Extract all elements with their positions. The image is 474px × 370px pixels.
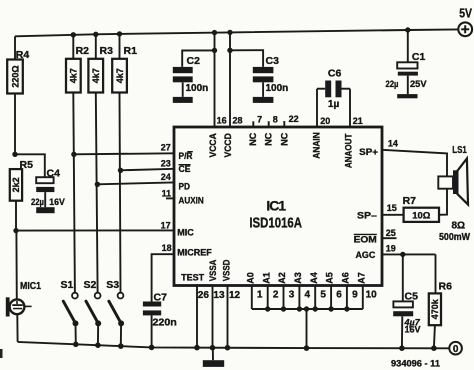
svg-text:5V: 5V (459, 6, 472, 21)
svg-text:16: 16 (217, 116, 227, 126)
node S2-rail (95, 342, 101, 348)
switch S3 (106, 279, 124, 346)
pin CE label (179, 164, 191, 175)
svg-text:MIC: MIC (177, 228, 194, 239)
node C5-rail (399, 345, 405, 351)
svg-text:VCCD: VCCD (223, 133, 233, 158)
node bus-A4 (313, 306, 318, 311)
svg-text:28: 28 (233, 116, 243, 126)
svg-text:22: 22 (289, 114, 299, 124)
svg-text:4k7: 4k7 (69, 68, 79, 83)
svg-text:4k7: 4k7 (115, 68, 125, 83)
wire pin 28 VCCD (229, 32, 231, 127)
wire A3 pin4 (298, 286, 300, 310)
svg-text:13: 13 (213, 290, 225, 301)
switch S2 (84, 279, 102, 345)
svg-text:SP–: SP– (357, 211, 377, 222)
node pin12-rail (225, 345, 231, 351)
wire C1 drop (407, 30, 409, 62)
svg-text:R2: R2 (76, 45, 90, 57)
svg-text:A0: A0 (245, 272, 255, 284)
svg-text:22µ: 22µ (31, 197, 44, 208)
resistor R3 (88, 34, 113, 92)
svg-text:16V: 16V (49, 197, 65, 208)
svg-text:S1: S1 (61, 279, 74, 291)
resistor R6 (429, 281, 452, 349)
svg-text:10: 10 (366, 289, 378, 300)
svg-text:14: 14 (388, 139, 398, 149)
svg-text:23: 23 (161, 159, 171, 169)
svg-text:5: 5 (320, 289, 326, 300)
svg-text:10Ω: 10Ω (412, 210, 431, 221)
capacitor C2 (173, 55, 208, 97)
wire pin 25 EOM stub (382, 237, 397, 239)
node R6-rail (431, 345, 437, 351)
node bus-A3 (297, 306, 302, 311)
svg-text:934096 - 11: 934096 - 11 (391, 358, 440, 368)
svg-text:220n: 220n (153, 317, 177, 328)
svg-text:AUXIN: AUXIN (179, 195, 204, 206)
svg-text:100n: 100n (186, 83, 209, 94)
pin EOM label (354, 234, 377, 245)
capacitor C7 (143, 291, 177, 347)
node pin27-R2 (71, 152, 76, 157)
node bus-A2 (281, 306, 286, 311)
svg-text:8Ω: 8Ω (452, 221, 466, 232)
svg-text:VCCA: VCCA (208, 133, 218, 158)
wire A0 pin1 (251, 286, 253, 310)
switch S1 (61, 279, 79, 344)
svg-text:1: 1 (257, 289, 263, 300)
wire C2 tap (182, 50, 214, 67)
svg-text:470k: 470k (430, 298, 440, 319)
speaker LS1 (438, 144, 468, 205)
svg-text:18: 18 (162, 243, 172, 253)
IC IC1 ISD1016A body (174, 127, 382, 286)
microphone MIC1 (6, 281, 42, 342)
svg-text:A2: A2 (277, 272, 287, 284)
wire junction to MIC1 (15, 231, 17, 300)
wire A6 pin9 (346, 286, 348, 310)
svg-text:220Ω: 220Ω (10, 65, 20, 87)
wire pin 12 VSSD to rail (227, 286, 229, 348)
node rail-R2 (71, 32, 76, 37)
svg-text:ISD1016A: ISD1016A (249, 215, 302, 232)
node AGC-C5 (400, 252, 405, 257)
svg-text:IC1: IC1 (266, 198, 286, 214)
svg-text:20: 20 (320, 116, 330, 126)
svg-text:C6: C6 (328, 67, 342, 79)
wire pin 13 VSSA to rail (212, 286, 214, 348)
svg-text:3: 3 (289, 289, 295, 300)
svg-text:9: 9 (352, 289, 358, 300)
svg-text:PD: PD (179, 182, 191, 193)
wire pin 24 (97, 182, 174, 184)
svg-text:MIC1: MIC1 (20, 281, 41, 292)
wire pin 19 AGC (382, 253, 436, 255)
wire pin 21 ANAOUT (349, 89, 351, 127)
wire R4/R5 junction to C4 (15, 154, 45, 177)
svg-text:CE: CE (179, 164, 191, 175)
svg-text:19: 19 (386, 244, 396, 254)
wire A7 pin10 (362, 286, 364, 310)
wire A4 pin5 (314, 286, 316, 310)
svg-text:NC: NC (248, 132, 258, 145)
wire R6 drop (435, 254, 437, 293)
svg-text:2: 2 (273, 289, 279, 300)
svg-text:R7: R7 (403, 195, 417, 207)
svg-text:0: 0 (453, 344, 459, 355)
resistor R5 (10, 159, 33, 231)
svg-text:S2: S2 (84, 279, 97, 291)
svg-text:R6: R6 (439, 281, 453, 293)
svg-text:NC: NC (280, 132, 290, 145)
svg-text:R1: R1 (124, 45, 138, 57)
resistor R7 (403, 195, 439, 222)
wire pin 27 (74, 153, 175, 154)
node rail-C1 (405, 27, 410, 32)
wire pin 14 to LS1 (382, 150, 447, 177)
svg-text:8: 8 (273, 114, 278, 124)
svg-text:A6: A6 (341, 272, 351, 284)
svg-text:C2: C2 (187, 55, 201, 67)
svg-text:TEST: TEST (181, 272, 204, 283)
node bus-A1 (265, 306, 270, 311)
svg-text:1µ: 1µ (328, 99, 340, 110)
node C7-rail (149, 345, 155, 351)
node bus-A5 (328, 306, 333, 311)
wire pin 11 stub (166, 197, 174, 199)
svg-text:4: 4 (305, 289, 311, 300)
wire pin 26 TEST to rail (196, 286, 198, 348)
svg-text:R3: R3 (100, 45, 114, 57)
node S1-rail (73, 342, 79, 348)
svg-text:21: 21 (353, 116, 363, 126)
node pin16-C2 (212, 48, 217, 53)
svg-text:A3: A3 (293, 272, 303, 284)
svg-text:26: 26 (198, 290, 210, 301)
wire pin 20 ANAIN (316, 89, 318, 127)
wire MIC line to pin 17 (16, 229, 174, 231)
svg-text:4k7: 4k7 (91, 68, 101, 83)
svg-text:25: 25 (386, 228, 396, 238)
ground C2 (173, 97, 193, 103)
svg-text:NC: NC (264, 132, 274, 145)
svg-text:2k2: 2k2 (11, 177, 21, 192)
node R4-R5 junction (12, 152, 17, 157)
wire R1 column to S3 (120, 93, 121, 293)
node rail-R3 (93, 32, 98, 37)
svg-text:R4: R4 (16, 49, 30, 61)
svg-text:ANAOUT: ANAOUT (344, 133, 354, 168)
terminal 5V (458, 6, 472, 37)
resistor R1 (112, 34, 137, 93)
svg-text:100n: 100n (266, 83, 289, 94)
wire pin 8 stub (268, 121, 270, 127)
svg-text:S3: S3 (106, 279, 119, 291)
svg-text:11: 11 (162, 189, 172, 199)
capacitor C3 (253, 55, 288, 97)
wire pin 16 VCCA (214, 33, 216, 127)
wire address bus (252, 308, 363, 310)
ground C4 (36, 207, 54, 213)
wire R7 to LS1 (439, 189, 447, 215)
svg-text:17: 17 (161, 220, 171, 230)
wire pin 23 (121, 169, 175, 171)
resistor R2 (66, 35, 89, 93)
node S3-rail (118, 343, 124, 349)
wire A5 pin6 (330, 286, 332, 310)
svg-text:A7: A7 (356, 272, 366, 284)
svg-text:16V: 16V (405, 325, 421, 335)
resistor R4 (7, 36, 29, 154)
svg-text:P/R: P/R (179, 151, 193, 162)
node rail-pin16 (212, 30, 217, 35)
svg-text:6: 6 (336, 289, 342, 300)
ground main (203, 348, 224, 367)
node bus-drop (304, 306, 309, 311)
wire R2 column to S1 (73, 93, 75, 293)
wire 5V top rail (15, 29, 458, 36)
node rail-pin28 (227, 30, 232, 35)
node pin23-R1 (118, 168, 123, 173)
wire A1 pin2 (267, 286, 269, 310)
svg-text:A1: A1 (261, 272, 271, 284)
svg-text:VSSA: VSSA (208, 259, 218, 281)
node pin13-rail (210, 345, 216, 351)
svg-text:MICREF: MICREF (177, 248, 212, 259)
svg-text:A4: A4 (309, 272, 319, 284)
svg-text:VSSD: VSSD (222, 259, 232, 281)
svg-text:C3: C3 (266, 55, 280, 67)
node rail-R1 (117, 31, 122, 36)
node pin26-rail (194, 345, 200, 351)
node bus-A6 (344, 306, 349, 311)
wire pin 22 stub (283, 121, 285, 127)
capacitor C5 (393, 291, 420, 349)
svg-text:12: 12 (229, 290, 241, 301)
node pin28-C3 (227, 48, 232, 53)
wire R3 column to S2 (96, 93, 98, 293)
svg-text:7: 7 (257, 115, 262, 125)
terminal 0 (449, 342, 462, 355)
svg-text:SP+: SP+ (359, 147, 378, 158)
ground C1 (397, 94, 417, 98)
svg-text:25V: 25V (410, 79, 427, 90)
capacitor C1 (386, 51, 428, 94)
node R5-mic junction (13, 228, 18, 233)
svg-text:AGC: AGC (356, 250, 376, 261)
wire bus to rail (306, 309, 308, 348)
svg-text:EOM: EOM (354, 235, 377, 246)
capacitor C6 (317, 67, 350, 110)
capacitor C4 (31, 168, 65, 208)
svg-text:C1: C1 (412, 51, 426, 63)
wire C5 drop (402, 254, 404, 301)
svg-text:22µ: 22µ (386, 79, 399, 90)
wire pin 7 stub (252, 121, 254, 127)
node pin24-R3 (95, 182, 100, 187)
svg-text:24: 24 (161, 172, 171, 182)
svg-text:ANAIN: ANAIN (312, 132, 322, 159)
node bus-rail (304, 345, 310, 351)
wire pin18 MICREF to C7 (152, 254, 174, 301)
svg-text:A5: A5 (325, 272, 335, 284)
wire pin 15 to R7 (382, 214, 404, 216)
svg-text:27: 27 (161, 142, 171, 152)
wire C3 tap (230, 50, 263, 67)
svg-text:15: 15 (387, 203, 397, 213)
wire A2 pin3 (283, 286, 285, 310)
svg-text:500mW: 500mW (439, 232, 470, 243)
pin P/R label (179, 151, 193, 162)
wire bottom rail (18, 342, 450, 348)
ground C3 (253, 97, 274, 103)
svg-text:LS1: LS1 (452, 144, 467, 156)
